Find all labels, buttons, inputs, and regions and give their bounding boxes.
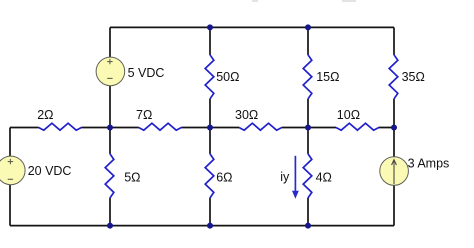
svg-text:7Ω: 7Ω [136, 108, 152, 122]
svg-text:30Ω: 30Ω [235, 108, 258, 122]
svg-text:5Ω: 5Ω [124, 171, 140, 185]
svg-text:2Ω: 2Ω [37, 108, 53, 122]
svg-text:iy: iy [280, 170, 290, 184]
svg-text:35Ω: 35Ω [402, 70, 425, 84]
svg-text:10Ω: 10Ω [337, 108, 360, 122]
svg-text:4Ω: 4Ω [316, 171, 332, 185]
svg-text:6Ω: 6Ω [216, 171, 232, 185]
svg-text:20 VDC: 20 VDC [28, 164, 72, 178]
svg-text:5 VDC: 5 VDC [128, 66, 165, 80]
svg-text:3 Amps: 3 Amps [408, 156, 450, 170]
svg-text:50Ω: 50Ω [216, 70, 239, 84]
svg-text:15Ω: 15Ω [316, 70, 339, 84]
